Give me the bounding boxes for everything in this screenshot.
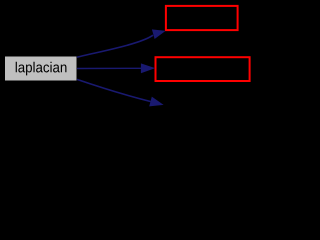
edge laplacian to box2 (horizontal)	[77, 63, 155, 73]
edge laplacian to hidden node (down-right)	[77, 79, 164, 106]
node box1 (top, red border)	[166, 6, 238, 30]
edge laplacian to box1 (curved up-right)	[77, 29, 166, 57]
node box2 (middle, red border)	[156, 57, 250, 81]
node laplacian (current node, grey filled)	[5, 56, 78, 81]
